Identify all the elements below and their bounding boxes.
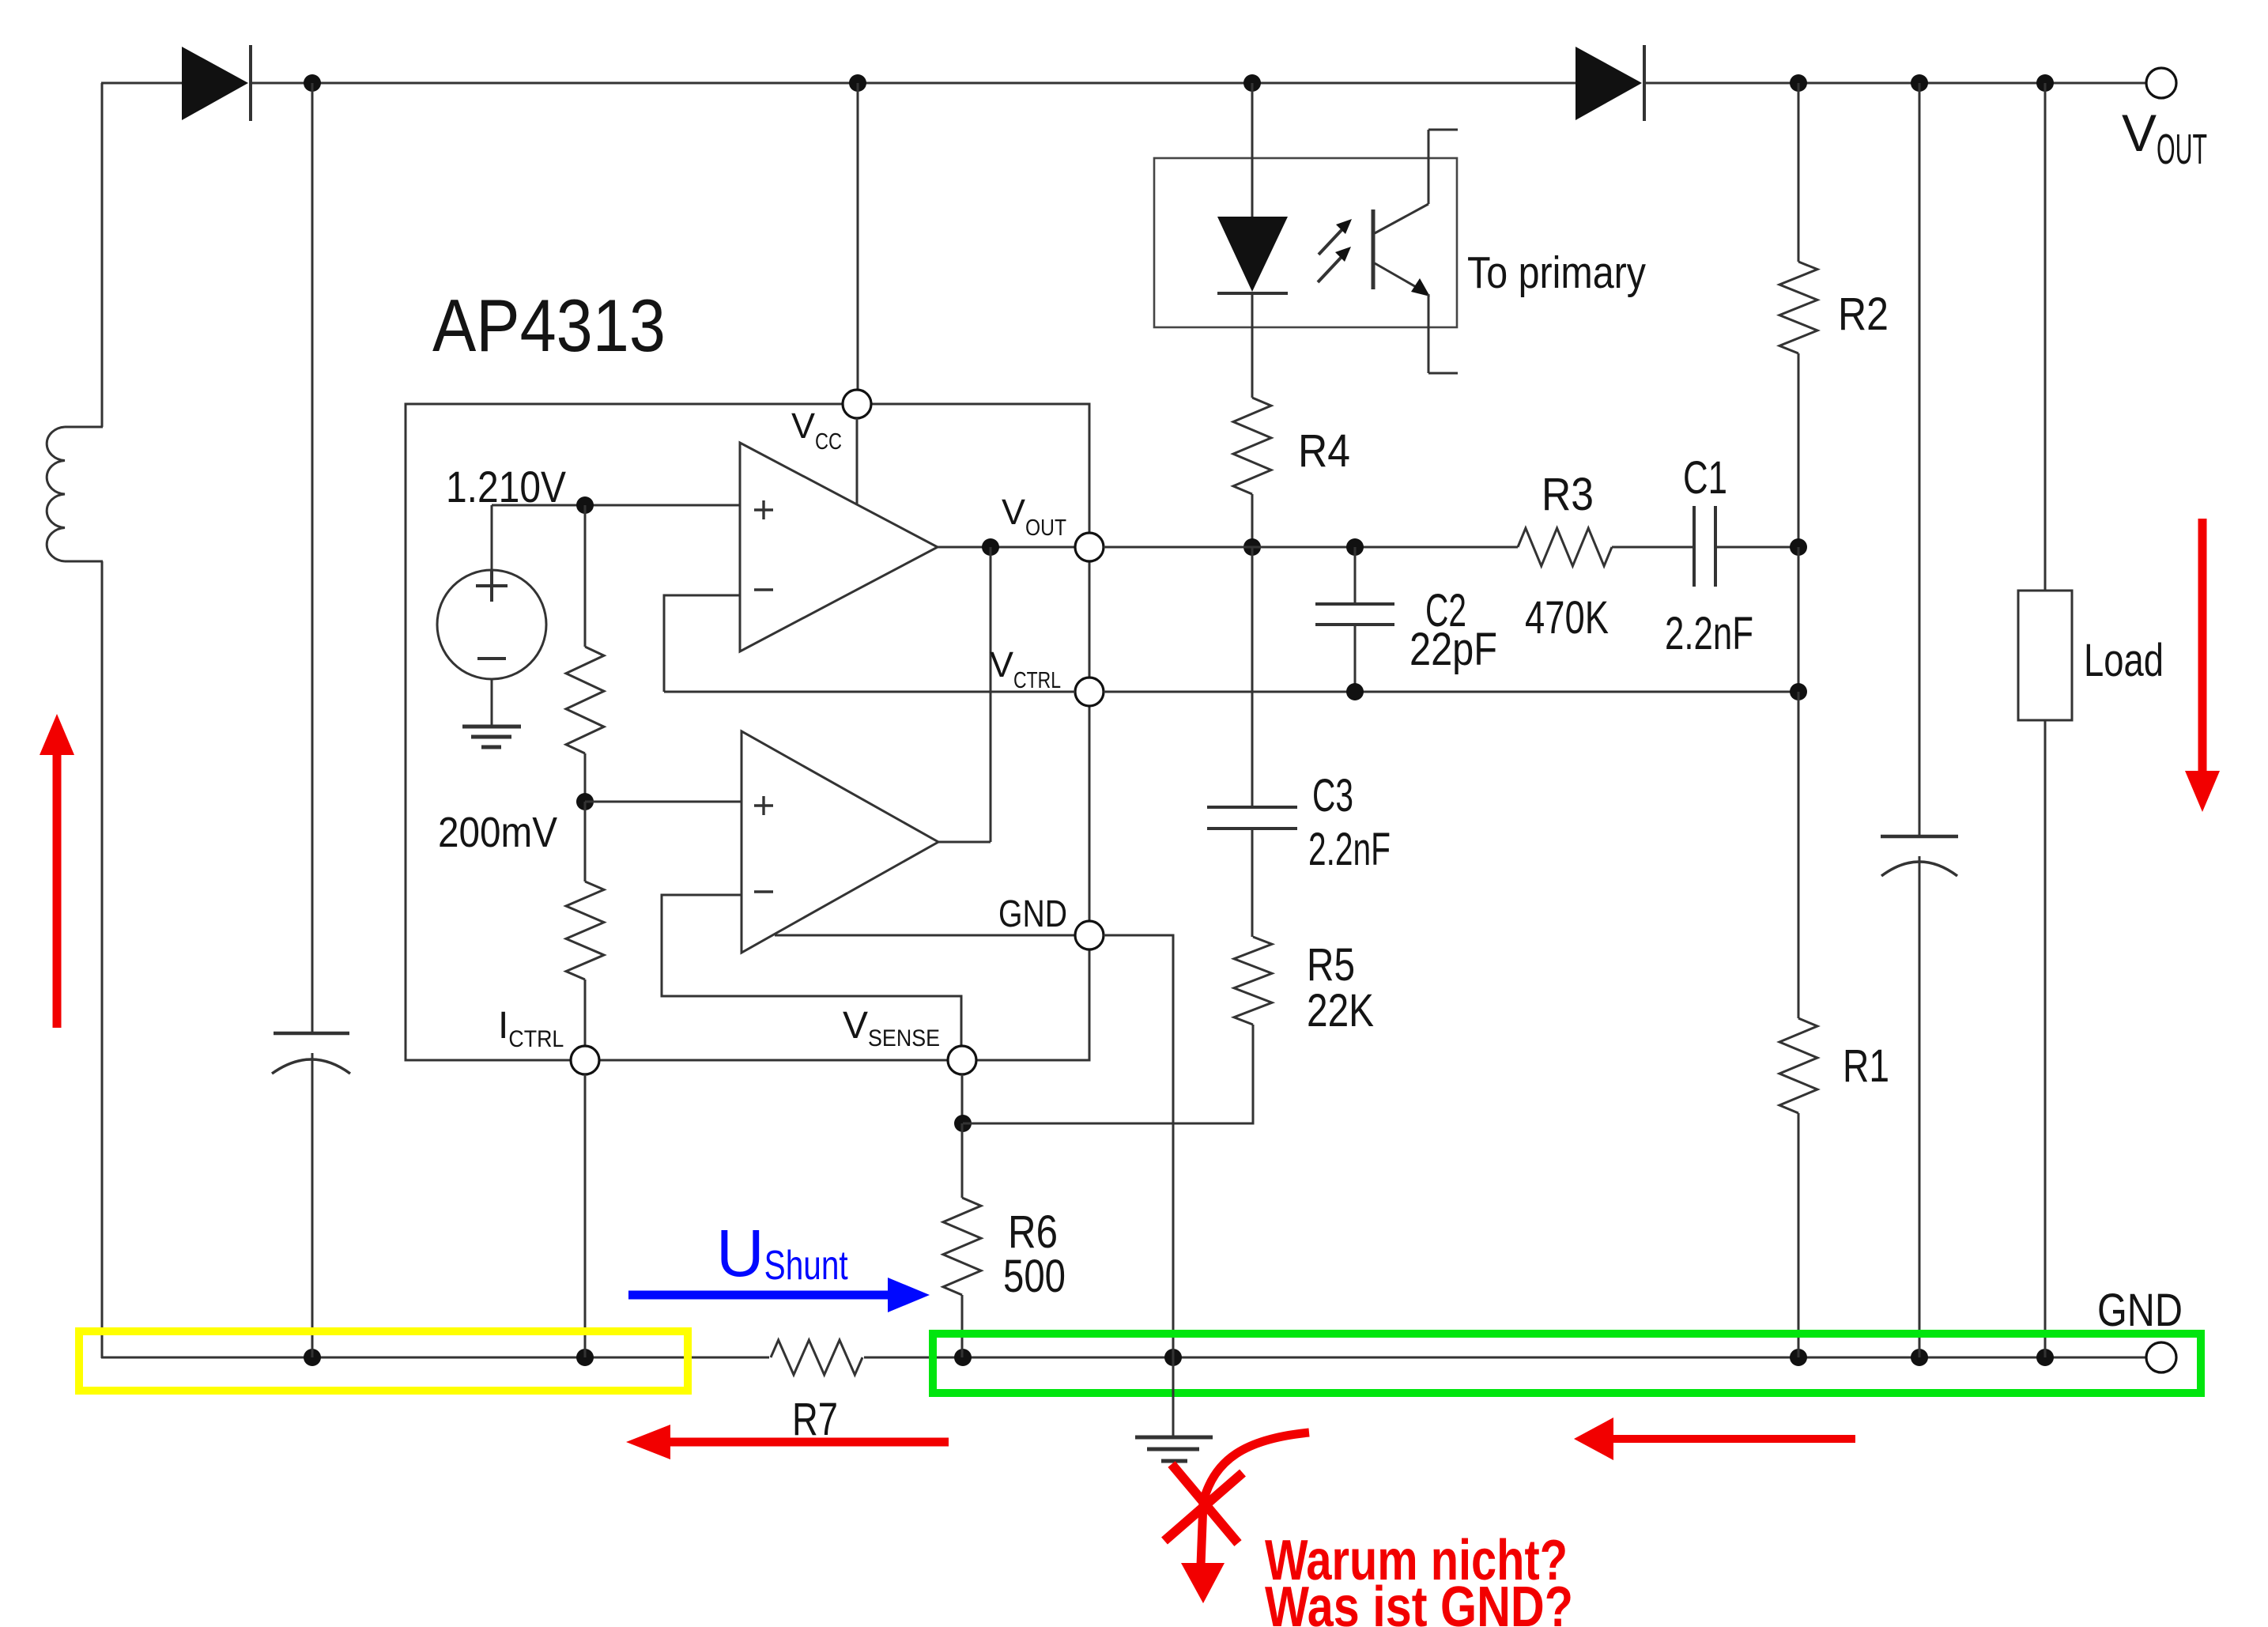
wire: C2 top lead (1354, 547, 1357, 604)
opto light arrows (1319, 229, 1342, 255)
capacitor: output filter capacitor (polarized) (1881, 835, 1958, 839)
svg-text:200mV: 200mV (438, 809, 557, 856)
wire: ground stem below rail (1172, 1357, 1175, 1437)
wire: left filter cap top lead (311, 83, 314, 1033)
wire: source bottom lead (491, 679, 493, 727)
node: junction VCTRL / C2 (1346, 683, 1364, 700)
svg-text:2.2nF: 2.2nF (1308, 824, 1391, 875)
resistor R2 (1779, 262, 1817, 353)
wire: U1B feedback from VSENSE (662, 895, 961, 1047)
pin: VCC pin circle (843, 390, 871, 418)
ground: earth symbol on ground rail (1135, 1436, 1213, 1440)
svg-text:R4: R4 (1298, 425, 1350, 477)
optocoupler U2: package outline (1154, 158, 1457, 327)
op-amp U1B (current error amp) (742, 731, 938, 953)
svg-text:500: 500 (1003, 1251, 1066, 1302)
ground: internal reference ground symbol (462, 725, 521, 729)
node: junction VSENSE / R6 / R5 (954, 1115, 972, 1132)
capacitor C3 (1207, 806, 1297, 809)
node: junction top rail / output cap branch (1911, 74, 1928, 92)
node: junction bottom rail / left filter cap (304, 1349, 321, 1366)
svg-text:470K: 470K (1525, 592, 1609, 644)
wire: opto LED anode from top rail (1251, 83, 1254, 218)
wire: VOUT net from pin to R3 (1104, 546, 1518, 549)
terminal: VOUT output terminal (2146, 68, 2176, 98)
wire: ICTRL pin to bottom rail (584, 1074, 587, 1357)
wire: C3 to R5 (1251, 829, 1254, 937)
wire: VCTRL net inside IC (664, 691, 1075, 693)
svg-text:Load: Load (2084, 635, 2164, 686)
terminal: GND output terminal (2146, 1342, 2176, 1372)
highlight: green box around ground-rail segment (933, 1334, 2201, 1393)
wire: U1B output to tie line (938, 841, 991, 844)
resistor: internal divider upper resistor (566, 647, 604, 753)
annotation arrow: red down arrow (right current path) (2198, 519, 2207, 773)
node: junction + input / divider top (576, 496, 594, 514)
wire: top rail between D1 and D2 (251, 82, 1577, 85)
annotation: red X crossing ground symbol (1164, 1473, 1243, 1541)
svg-text:R2: R2 (1838, 289, 1889, 340)
pin: ICTRL pin circle (571, 1046, 599, 1074)
wire: left vertical from top rail to winding (101, 83, 104, 427)
node: junction bottom rail / output cap branch (1911, 1349, 1928, 1366)
wire: left vertical from winding to ground rail (101, 561, 104, 1358)
node: junction R4 / VOUT net / C3 (1243, 538, 1261, 556)
svg-text:To primary: To primary (1467, 247, 1646, 298)
svg-text:R1: R1 (1843, 1040, 1889, 1092)
wire: source top lead (491, 505, 493, 571)
wire: U1A feedback from VCTRL (664, 595, 740, 692)
wire: VCC branch from top rail (857, 83, 859, 391)
node: junction top rail / load branch (2036, 74, 2054, 92)
svg-text:R5: R5 (1307, 939, 1355, 991)
wire: U1A output to VOUT pin (938, 546, 1075, 549)
svg-text:AP4313: AP4313 (432, 284, 666, 367)
wire: VCTRL net from pin to R1/R2 node (1104, 691, 1798, 693)
wire: top rail from D2 to VOUT terminal (1644, 82, 2147, 85)
svg-text:22K: 22K (1307, 985, 1374, 1036)
wire: bottom ground rail (101, 1357, 2147, 1359)
node: junction bottom rail / load branch (2036, 1349, 2054, 1366)
svg-text:R7: R7 (792, 1394, 838, 1445)
IC U1 AP4313: body outline (406, 404, 1089, 1060)
resistor R5 (1234, 937, 1272, 1025)
phototransistor inside optocoupler (1372, 210, 1376, 289)
wire: output cap top lead (1919, 83, 1921, 836)
node: junction VOUT net / C2 (1346, 538, 1364, 556)
wire: load top lead (2044, 83, 2047, 591)
wire: output cap bottom lead (1919, 856, 1921, 1357)
annotation arrow: red left arrow under R7 (668, 1438, 949, 1447)
resistor R6 (shunt) (943, 1198, 981, 1295)
pin: VCTRL pin circle (1075, 678, 1104, 706)
LED inside optocoupler (emitter diode) (1217, 217, 1288, 292)
node: junction R1 top / VCTRL net (1790, 683, 1807, 700)
node: junction bottom rail / R6 branch (954, 1349, 972, 1366)
wire: load bottom lead (2044, 720, 2047, 1357)
wire: reference to op-amp U1A + input (492, 504, 740, 507)
svg-text:GND: GND (2097, 1285, 2183, 1336)
wire: R2 bottom lead (1798, 353, 1800, 547)
inductor: transformer secondary winding (65, 426, 103, 428)
wire: VSENSE node to R5 bottom (963, 1025, 1253, 1123)
node: junction U1A output / VCTRL tie (982, 538, 999, 556)
diode D2 (series diode to VOUT) (1576, 47, 1642, 120)
annotation arrow: blue U_Shunt arrow (628, 1291, 890, 1300)
wire: left filter cap bottom lead (311, 1053, 314, 1357)
node: junction bottom rail / ICTRL branch (576, 1349, 594, 1366)
annotation arrow: red up arrow (left current path) (53, 753, 62, 1028)
resistor R7 (wiring resistance) (769, 1337, 864, 1378)
resistor R4 (1233, 398, 1271, 494)
op-amp U1A (voltage error amp) (740, 443, 938, 651)
node: junction 200mV tap (576, 793, 594, 810)
wire: VSENSE pin down to R6 node (961, 1074, 964, 1123)
capacitor C2 (VOUT to VCTRL) (1315, 602, 1394, 606)
annotation arrow: red left arrow over ground rail (right) (1611, 1435, 1855, 1443)
node: junction top rail / left filter cap branch (304, 74, 321, 92)
wire: C3 top lead (1251, 547, 1254, 807)
wire: GND pin to bottom rail (1104, 935, 1173, 1357)
wire: R2 top lead (1798, 83, 1800, 262)
annotation: red curved arrow at ground symbol (1201, 1433, 1309, 1565)
wire: top output rail left of diode D1 (101, 82, 183, 85)
capacitor: left filter capacitor (polarized) (274, 1032, 349, 1036)
wire: C2 bottom lead (1354, 625, 1357, 692)
wire: R2/R1 mid segment (1798, 547, 1800, 692)
wire: R1 bottom lead (1798, 1113, 1800, 1357)
wire: R3 to C1 (1612, 546, 1694, 549)
resistor R3 (series) (1518, 528, 1612, 566)
node: junction bottom rail / R1 branch (1790, 1349, 1807, 1366)
svg-text:2.2nF: 2.2nF (1665, 608, 1753, 659)
wire: output tie line down to U1B output (990, 547, 992, 842)
pin: VSENSE pin circle (948, 1046, 976, 1074)
wire: R6 leads (961, 1123, 964, 1198)
pin: GND pin circle (1075, 921, 1104, 949)
wire: U1B to GND pin (775, 934, 1075, 937)
svg-text:22pF: 22pF (1409, 624, 1497, 675)
node: junction top rail / optocoupler branch (1243, 74, 1261, 92)
highlight: yellow box around negative-rail segment (79, 1331, 688, 1391)
voltage source V1 1.210V (circle with + -) (437, 570, 546, 679)
svg-text:GND: GND (998, 893, 1067, 935)
wire: C1 to R2 node (1715, 546, 1798, 549)
resistor: internal divider lower resistor (566, 881, 604, 980)
wire: R4 bottom lead (1251, 494, 1254, 547)
svg-text:C3: C3 (1312, 770, 1353, 821)
wire: opto LED cathode to R4 (1251, 293, 1254, 398)
node: junction top rail / VCC branch (849, 74, 866, 92)
resistor R1 (1779, 1018, 1817, 1113)
svg-text:C1: C1 (1683, 452, 1727, 504)
wire: R1 top lead (1798, 692, 1800, 1018)
svg-text:Was ist GND?: Was ist GND? (1265, 1576, 1573, 1627)
node: junction R2 / C1 (1790, 538, 1807, 556)
wire: 200mV tap to op-amp U1B + input (585, 801, 742, 803)
wire: divider lower leads (584, 802, 587, 881)
wire: divider upper leads (584, 505, 587, 647)
pin: VOUT pin circle (1075, 533, 1104, 561)
svg-text:R3: R3 (1542, 469, 1594, 520)
diode D1 (secondary rectifier, left) (182, 47, 248, 120)
capacitor C1 (series) (1693, 506, 1696, 587)
load (resistive load box) (2018, 591, 2072, 720)
node: junction top rail / R2 branch (1790, 74, 1807, 92)
node: junction bottom rail / GND pin branch (1164, 1349, 1182, 1366)
wire: VCC stub inside IC to op-amp U1A (856, 418, 859, 504)
